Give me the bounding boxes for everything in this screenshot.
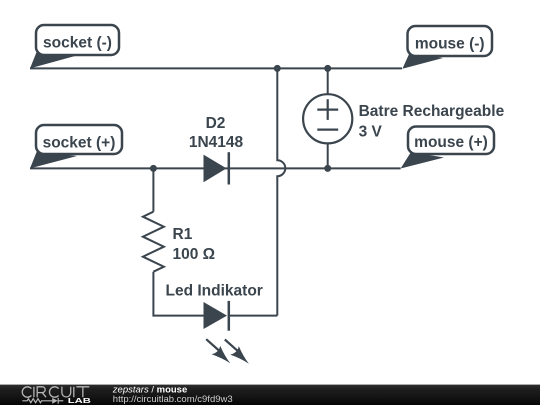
svg-text:mouse (-): mouse (-) — [415, 36, 485, 53]
LED D1 symbol — [204, 301, 229, 331]
wire LED cathode to vertical riser — [229, 315, 277, 317]
junction dot top wire / battery — [324, 65, 331, 72]
junction dot (+) wire / R1 — [150, 165, 157, 172]
wire net (+) second horizontal — [30, 167, 401, 169]
svg-text:D2: D2 — [206, 115, 226, 132]
wire battery bottom lead — [327, 143, 329, 168]
resistor R1 zigzag — [143, 212, 164, 272]
wire vertical with hop over (+) wire — [277, 68, 285, 315]
node flag socket (-) tail — [30, 51, 75, 68]
node flag mouse (-) box — [408, 26, 493, 56]
plus sign — [317, 108, 338, 110]
junction dot top wire / riser — [274, 65, 281, 72]
svg-text:socket (-): socket (-) — [43, 35, 112, 52]
svg-text:LAB: LAB — [68, 396, 91, 405]
node flag socket (-) box — [36, 25, 119, 55]
node flag mouse (+) box — [408, 127, 494, 155]
wire R1 top lead — [152, 168, 154, 211]
svg-text:Led Indikator: Led Indikator — [166, 283, 263, 300]
minus sign — [317, 129, 338, 131]
LED emission arrow 2 — [225, 340, 249, 364]
node flag mouse (+) tail — [401, 152, 444, 169]
svg-text:Batre Rechargeable: Batre Rechargeable — [359, 103, 505, 120]
node flag socket (+) box — [36, 125, 122, 154]
node flag socket (+) tail — [30, 151, 77, 168]
junction dot (+) wire / battery — [324, 165, 331, 172]
svg-text:http://circuitlab.com/c9fd9w3: http://circuitlab.com/c9fd9w3 — [113, 394, 233, 405]
svg-text:100 Ω: 100 Ω — [173, 246, 216, 263]
CircuitLab logo resistor-diode glyph — [22, 398, 63, 404]
battery V1 source circle — [303, 94, 352, 143]
wire net (-) top horizontal — [30, 67, 402, 69]
LED emission arrow 1 — [206, 339, 230, 363]
svg-text:mouse (+): mouse (+) — [414, 134, 488, 151]
node flag mouse (-) tail — [402, 52, 443, 69]
wire battery top lead — [327, 68, 329, 94]
wire R1 bottom to LED row — [153, 272, 203, 316]
svg-text:1N4148: 1N4148 — [189, 134, 244, 151]
svg-text:3 V: 3 V — [359, 123, 383, 140]
svg-text:R1: R1 — [173, 226, 193, 243]
diode D2 symbol — [204, 152, 229, 184]
CircuitLab logo text CIRCUIT — [22, 387, 89, 397]
svg-text:socket (+): socket (+) — [43, 135, 116, 152]
